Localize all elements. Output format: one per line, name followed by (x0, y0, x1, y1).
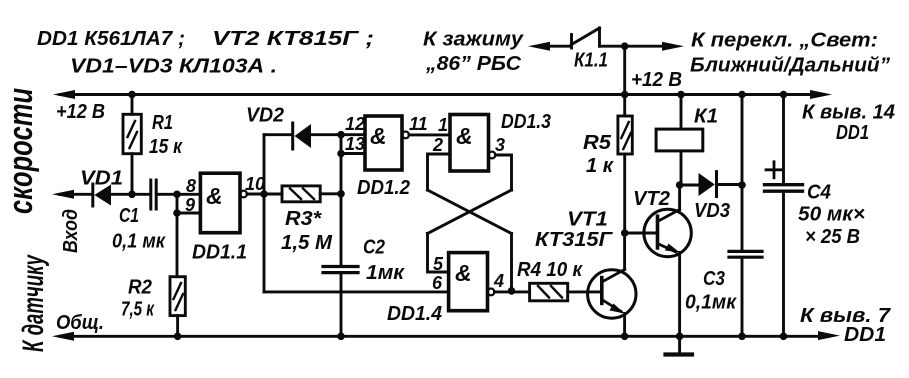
svg-text:7,5 к: 7,5 к (121, 299, 155, 321)
arrow left +12V (53, 90, 75, 99)
C4 plus sign (766, 162, 782, 178)
svg-text:12: 12 (345, 114, 365, 134)
wire +12V top rail (60, 93, 814, 96)
wire VD2 left segment (264, 133, 291, 136)
wire node pin10 vertical (VD2 anode / pin6 feed) (263, 135, 266, 292)
op NAND DD1.3 body (450, 115, 489, 172)
svg-text:2: 2 (432, 135, 443, 155)
transistor VT2 (644, 209, 691, 256)
svg-text:C3: C3 (703, 268, 725, 290)
wire common rail (Obsh) (60, 335, 818, 338)
resistor R5 body (618, 116, 632, 154)
resistor R3 body (282, 186, 320, 202)
wire DD1.3 output corner (495, 155, 511, 190)
svg-text:К1.1: К1.1 (574, 50, 608, 72)
capacitor C3 (729, 251, 762, 257)
wire R3 right to node (320, 192, 341, 195)
svg-text:скорости: скорости (2, 88, 40, 214)
svg-text:VD1: VD1 (80, 168, 123, 190)
wire pin 9 stub (177, 212, 200, 215)
svg-text:11: 11 (409, 114, 428, 134)
svg-text:C4: C4 (807, 182, 831, 204)
switch K1.1 contact tick (570, 35, 573, 49)
wire VD3 cathode to C3 node (717, 183, 743, 186)
DD1.1 output inversion circle (240, 191, 247, 198)
svg-text:&: & (455, 260, 472, 286)
svg-text:DD1.2: DD1.2 (357, 177, 410, 199)
svg-text:1 к: 1 к (586, 155, 614, 177)
wire C4 branch vertical (782, 95, 785, 337)
wire DD1.1 node to DD1.4 pin 6 (264, 290, 449, 293)
capacitor C4 electrolytic (765, 183, 803, 186)
diode VD2 (291, 123, 294, 149)
node dot R3 right (337, 190, 345, 198)
wire DD1.3 pin2 from cross (428, 154, 451, 190)
wire R4 to VT1 base (568, 290, 602, 293)
op NAND DD1.4 body (449, 253, 488, 311)
wire DD1.2 output to DD1.3 pin 1 (409, 133, 450, 136)
node dot VT2 base (621, 229, 629, 237)
wire VT2 base (625, 232, 658, 235)
relay K1 stubs (680, 95, 683, 186)
node dot K1.1 top (621, 42, 629, 50)
resistor R1 body (123, 114, 141, 153)
svg-text:R2: R2 (128, 277, 152, 299)
wire pin 13 stub (341, 152, 365, 155)
svg-text:3: 3 (495, 135, 505, 155)
op NAND DD1.2 body (365, 116, 402, 170)
ground symbol (678, 336, 681, 353)
node dot pin9 branch (173, 209, 181, 217)
op NAND DD1.1 body (200, 173, 240, 233)
svg-text:Вход: Вход (60, 209, 82, 253)
wire C3 branch vertical (741, 95, 744, 337)
wire Vhod input line (60, 193, 200, 196)
diode VD1 (91, 184, 94, 206)
node dot C2 rail (337, 333, 345, 341)
wire node vertical x341 (VD2/DD1.2 in/R3/C2) (340, 135, 343, 266)
wire pin9 branch vertical to R2 (176, 194, 179, 276)
node dot K1 rail (677, 91, 685, 99)
node dot pin13 (337, 150, 345, 158)
svg-text:„86” РБС: „86” РБС (425, 53, 522, 75)
svg-text:К перекл. „Свет:: К перекл. „Свет: (691, 30, 878, 52)
svg-text:DD1: DD1 (836, 122, 869, 144)
svg-text:15 к: 15 к (149, 136, 183, 158)
svg-text:КТ315Г: КТ315Г (535, 229, 614, 251)
svg-text:VT1: VT1 (567, 209, 608, 231)
svg-text:DD1.3: DD1.3 (501, 111, 551, 133)
wire cross to DD1.4 output node (510, 234, 513, 291)
wire C2 bottom to common rail (340, 273, 343, 337)
wire VD3 anode (680, 184, 698, 187)
svg-text:50 мк×: 50 мк× (798, 204, 865, 226)
svg-text:R4 10 к: R4 10 к (517, 259, 583, 281)
svg-text:&: & (456, 123, 473, 149)
svg-text:+12 В: +12 В (56, 101, 105, 123)
arrow right K vyv 7 (818, 331, 840, 340)
svg-text:C2: C2 (363, 237, 385, 259)
svg-text:VD2: VD2 (246, 105, 284, 127)
wire VT2 collector to relay node (678, 185, 681, 210)
svg-text:R3*: R3* (285, 208, 322, 230)
capacitor C1 (151, 180, 156, 209)
wire VT2 emitter to common rail (678, 252, 681, 336)
arrow left Vhod (52, 190, 74, 199)
svg-text:× 25 В: × 25 В (805, 226, 860, 248)
node dot VD3 anode (676, 181, 684, 189)
node dot VT1 emitter rail (621, 333, 629, 341)
resistor R2 body (170, 277, 185, 316)
svg-text:13: 13 (345, 134, 365, 154)
relay K1 coil (656, 129, 703, 151)
node dot DD1.4 output (508, 287, 516, 295)
node dot C3 rail (738, 91, 746, 99)
wire cross line A (428, 190, 512, 234)
wire VT1 emitter to common rail (623, 314, 626, 337)
arrow right K vyv 14 (810, 90, 832, 99)
svg-text:0,1 мк: 0,1 мк (112, 231, 166, 253)
svg-text:R5: R5 (583, 132, 612, 154)
node dot ground rail (676, 333, 684, 341)
svg-text:VD1–VD3 КЛ103А .: VD1–VD3 КЛ103А . (70, 56, 277, 78)
DD1.4 output inversion circle (488, 289, 495, 296)
capacitor C2 (323, 267, 358, 273)
node dot R1 bottom (128, 191, 136, 199)
diode VD3 (699, 173, 715, 196)
svg-text:Ближний/Дальний”: Ближний/Дальний” (690, 55, 890, 77)
DD1.3 output inversion circle (489, 152, 496, 159)
arrow left Obsh (52, 332, 74, 341)
wire to terminal 86 RBS (left of switch) (545, 45, 572, 48)
svg-text:5: 5 (433, 254, 444, 274)
svg-text:1: 1 (438, 115, 448, 135)
svg-text:VT2: VT2 (633, 188, 670, 210)
svg-text:&: & (370, 123, 387, 149)
node dot DD1.1 output (260, 190, 268, 198)
wire DD1.1 output to R3 (247, 193, 282, 196)
resistor R1 stubs (131, 95, 134, 195)
switch K1.1 blade (572, 28, 600, 45)
node dot R1 top (128, 91, 136, 99)
svg-text:8: 8 (186, 176, 196, 196)
arrow left K zazhimu (528, 42, 550, 51)
node dot VD2 cathode (337, 131, 345, 139)
arrow right K perekl (662, 42, 684, 51)
svg-text:DD1: DD1 (844, 324, 886, 346)
svg-text:VD3: VD3 (694, 200, 730, 222)
node dot C3 rail bottom (738, 333, 746, 341)
svg-text:1мк: 1мк (366, 262, 405, 284)
svg-text:C1: C1 (119, 205, 139, 227)
wire K1.1 switch drop to +12 rail (623, 46, 626, 94)
svg-text:6: 6 (432, 273, 443, 293)
svg-text:Общ.: Общ. (56, 312, 104, 334)
svg-text:9: 9 (185, 195, 195, 215)
node dot VD3 cathode (738, 181, 746, 189)
svg-text:DD1 К561ЛА7 ;: DD1 К561ЛА7 ; (37, 28, 185, 50)
wire R2 to common rail (176, 316, 179, 337)
svg-text:К зажиму: К зажиму (423, 29, 524, 51)
svg-text:4: 4 (493, 271, 504, 291)
wire VD2 cathode to node and pin12 (311, 133, 365, 136)
svg-text:DD1.1: DD1.1 (192, 242, 247, 264)
transistor VT1 (588, 270, 636, 318)
svg-text:R1: R1 (152, 112, 173, 134)
svg-text:+12 В: +12 В (631, 69, 682, 91)
svg-text:К1: К1 (694, 106, 718, 128)
svg-text:0,1мк: 0,1мк (685, 292, 737, 314)
svg-text:DD1.4: DD1.4 (387, 303, 442, 325)
svg-text:&: & (206, 183, 223, 209)
svg-text:VT2 КТ815Г ;: VT2 КТ815Г ; (212, 28, 374, 50)
svg-text:1,5 М: 1,5 М (281, 232, 333, 254)
resistor R5 stubs (623, 95, 626, 234)
DD1.2 output inversion circle (402, 132, 409, 139)
node dot C4 rail (780, 91, 788, 99)
switch K1.1 right contact drop (598, 28, 601, 46)
node dot pin8 branch (173, 191, 181, 199)
wire cross to DD1.4 pin5 (428, 234, 449, 273)
node dot R2 rail (174, 333, 182, 341)
node dot C4 rail bottom (780, 333, 788, 341)
wire cross line B (428, 190, 512, 234)
wire switch node to right arrow (600, 45, 669, 48)
svg-text:10: 10 (245, 174, 265, 194)
resistor R4 body (530, 283, 568, 301)
wire DD1.4 output to R4 (494, 290, 529, 293)
svg-text:К выв. 14: К выв. 14 (802, 102, 895, 124)
node dot K1.1 rail (621, 91, 629, 99)
svg-text:К датчику: К датчику (17, 254, 50, 352)
wire VT1 collector up to base node of VT2 (623, 233, 626, 270)
